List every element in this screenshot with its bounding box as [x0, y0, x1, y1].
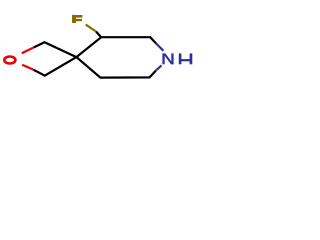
bond C6 to N, blue half [156, 43, 163, 50]
oxetane ring black bonds C1-spiro-C3 [34, 42, 77, 75]
atom label H [179, 53, 193, 64]
atom label F (drawn as bars) [72, 15, 82, 23]
piperidine top: spiro to C5(F) to C6 toward N [76, 37, 156, 57]
bond C5 to F, black half [96, 32, 101, 38]
bond O to upper carbon, red half [22, 47, 34, 53]
bond C8 to N, blue half [156, 65, 162, 70]
bond C5 to F, olive half [86, 25, 96, 32]
piperidine bottom: spiro to C9 to C8 toward N [76, 57, 155, 78]
atom label O (ellipse ring) [4, 57, 15, 64]
atom label N [162, 53, 173, 64]
bond O to lower carbon, red half [22, 65, 33, 70]
